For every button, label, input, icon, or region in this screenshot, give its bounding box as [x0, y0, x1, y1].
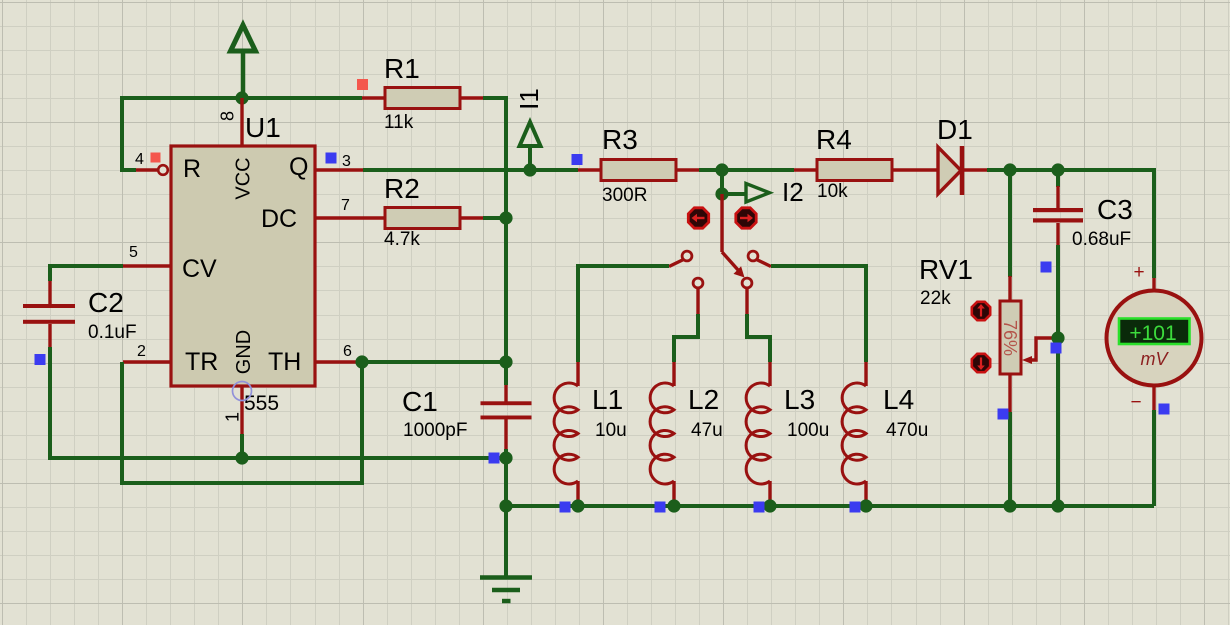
- power symbol VCC arrow: [231, 25, 256, 98]
- marker blue square pin3: [326, 153, 337, 164]
- inductor L1: [554, 362, 578, 500]
- label 555: [244, 392, 279, 415]
- inductor L4: [842, 362, 866, 500]
- current probe I2: [722, 184, 770, 203]
- inductor L3: [746, 362, 770, 500]
- wire TR to TH loop: [122, 362, 362, 483]
- svg-text:0.68uF: 0.68uF: [1072, 229, 1131, 250]
- svg-text:RV1: RV1: [919, 254, 973, 285]
- svg-text:R3: R3: [602, 124, 638, 155]
- marker blue square C2: [35, 354, 46, 365]
- label voltmeter unit mV: [1141, 349, 1170, 369]
- svg-text:+: +: [1133, 262, 1144, 283]
- svg-text:GND: GND: [233, 330, 255, 374]
- marker blue square wiper: [1051, 343, 1062, 354]
- svg-text:VCC: VCC: [233, 157, 255, 199]
- label R1: [384, 53, 420, 84]
- label R2 value 4.7k: [384, 229, 420, 250]
- label C1: [402, 386, 438, 417]
- wire C2 bottom to ground line: [50, 347, 506, 458]
- label L1 value 10u: [595, 420, 627, 441]
- svg-text:4.7k: 4.7k: [384, 229, 420, 250]
- svg-text:L4: L4: [883, 384, 914, 415]
- label L2: [688, 384, 719, 415]
- node I1 junction: [523, 163, 536, 176]
- marker red square R1: [357, 79, 368, 90]
- svg-text:22k: 22k: [920, 288, 951, 309]
- voltmeter LCD: [1119, 319, 1190, 346]
- svg-text:L1: L1: [592, 384, 623, 415]
- current probe I1: [520, 122, 541, 170]
- pin number 4: [135, 151, 144, 168]
- switch pole and lever: [722, 194, 745, 278]
- node TH junction: [355, 355, 368, 368]
- svg-text:R4: R4: [816, 124, 852, 155]
- label C2: [88, 287, 124, 318]
- svg-text:DC: DC: [261, 205, 297, 233]
- svg-text:3: 3: [342, 153, 351, 170]
- label L4 value 470u: [886, 420, 928, 441]
- switch contact 3: [742, 278, 752, 314]
- pin name R: [183, 155, 201, 183]
- wire bottom rail: [506, 504, 1154, 508]
- switch contact 4: [748, 251, 771, 266]
- wire GND pin to ground line: [240, 434, 244, 458]
- node rail junctions: [499, 499, 1064, 512]
- svg-text:R1: R1: [384, 53, 420, 84]
- wire RV1 bottom: [1008, 412, 1012, 506]
- label L4: [883, 384, 914, 415]
- resistor R1: [362, 88, 483, 109]
- marker blue square R3 left: [572, 154, 583, 165]
- wire L4 bottom: [864, 500, 868, 506]
- wire Q output: [363, 168, 578, 172]
- svg-text:4: 4: [135, 151, 144, 168]
- node C1 ground junction: [499, 451, 512, 464]
- svg-text:I1: I1: [514, 88, 544, 110]
- RV1 wiper: [1022, 338, 1056, 364]
- svg-text:8: 8: [217, 111, 237, 121]
- pin 5 CV stub: [123, 264, 171, 267]
- wire R2 right to node: [483, 216, 506, 220]
- pin name TR: [185, 348, 218, 376]
- wire CV to C2: [50, 266, 123, 281]
- label RV1 value 22k: [920, 288, 951, 309]
- pin number 8: [217, 111, 237, 121]
- svg-text:76%: 76%: [1000, 320, 1020, 356]
- pin 2 TR stub: [123, 360, 171, 363]
- ground: [480, 506, 532, 601]
- svg-text:TH: TH: [268, 348, 301, 376]
- svg-text:D1: D1: [937, 114, 973, 145]
- marker blue square RV1 bottom: [998, 409, 1009, 420]
- pin number 6: [343, 343, 352, 360]
- node C3 top junction: [1051, 163, 1064, 176]
- node RV1 top junction: [1003, 163, 1016, 176]
- pin number 7: [341, 197, 350, 214]
- svg-text:C2: C2: [88, 287, 124, 318]
- svg-text:1000pF: 1000pF: [403, 420, 467, 441]
- svg-text:300R: 300R: [602, 185, 647, 206]
- svg-text:100u: 100u: [787, 420, 829, 441]
- svg-text:−: −: [1130, 392, 1141, 413]
- wire contact2 to L2: [674, 314, 698, 362]
- label I1: [514, 88, 544, 110]
- svg-text:5: 5: [129, 244, 138, 261]
- svg-text:11k: 11k: [384, 112, 414, 133]
- wire meter bottom to rail: [1152, 410, 1156, 506]
- svg-text:mV: mV: [1141, 349, 1170, 369]
- svg-text:0.1uF: 0.1uF: [88, 322, 137, 343]
- op-amp U1 (555 timer body): [171, 146, 315, 386]
- wire RV1 top: [1008, 170, 1012, 277]
- svg-text:Q: Q: [289, 153, 308, 181]
- label R1 value 11k: [384, 112, 414, 133]
- wire L2 bottom: [672, 500, 676, 506]
- node VCC junction: [235, 91, 248, 104]
- label R4: [816, 124, 852, 155]
- label R3 value 300R: [602, 185, 647, 206]
- svg-text:10u: 10u: [595, 420, 627, 441]
- pin name DC: [261, 205, 297, 233]
- svg-text:470u: 470u: [886, 420, 928, 441]
- label L1: [592, 384, 623, 415]
- RV1 down button: [972, 354, 990, 372]
- svg-text:C1: C1: [402, 386, 438, 417]
- switch contact 2: [693, 278, 703, 314]
- diode D1: [938, 146, 987, 195]
- potentiometer RV1: [1000, 276, 1021, 412]
- marker blue square meter: [1159, 404, 1170, 415]
- origin marker circle: [233, 382, 252, 401]
- wire contact3 to L3: [747, 314, 770, 362]
- label R2: [384, 173, 420, 204]
- resistor R4: [794, 160, 938, 181]
- svg-text:555: 555: [244, 392, 279, 415]
- voltmeter body: [1107, 291, 1202, 386]
- svg-text:CV: CV: [182, 255, 217, 283]
- pin name GND: [233, 330, 255, 374]
- capacitor C1: [481, 385, 532, 449]
- voltmeter minus terminal: [1130, 385, 1154, 413]
- node switch pole top: [715, 163, 728, 176]
- label RV1 percent: [1000, 320, 1020, 356]
- wire VCC top rail: [122, 98, 362, 170]
- svg-text:1: 1: [222, 412, 242, 422]
- pin number 5: [129, 244, 138, 261]
- RV1 up button: [972, 302, 990, 320]
- voltmeter plus terminal: [1133, 262, 1154, 291]
- label R3: [602, 124, 638, 155]
- switch actuator button left: [688, 208, 708, 228]
- svg-text:C3: C3: [1097, 194, 1133, 225]
- svg-text:10k: 10k: [817, 181, 848, 202]
- capacitor C3: [1033, 170, 1083, 506]
- inductor L2: [650, 362, 674, 500]
- wire R3 to R4: [699, 168, 794, 172]
- label C3: [1097, 194, 1133, 225]
- node I2 tap: [715, 187, 728, 200]
- svg-text:R2: R2: [384, 173, 420, 204]
- marker blue square C3: [1041, 262, 1052, 273]
- pin 3 Q stub: [315, 168, 363, 171]
- pin name CV: [182, 255, 217, 283]
- marker blue square C1 ground: [489, 453, 500, 464]
- capacitor C2: [23, 281, 75, 347]
- pin number 3: [342, 153, 351, 170]
- wire D1 cathode to meter: [987, 170, 1154, 278]
- svg-text:47u: 47u: [691, 420, 723, 441]
- pin name TH: [268, 348, 301, 376]
- label L3 value 100u: [787, 420, 829, 441]
- resistor R2: [363, 208, 483, 229]
- label D1: [937, 114, 973, 145]
- label I2: [782, 177, 804, 207]
- wire R1 output down to C1 column: [483, 98, 506, 506]
- node R2/C1 junction: [499, 211, 512, 224]
- label L2 value 47u: [691, 420, 723, 441]
- label L3: [784, 384, 815, 415]
- svg-text:7: 7: [341, 197, 350, 214]
- svg-text:6: 6: [343, 343, 352, 360]
- pin 7 DC stub: [315, 216, 363, 219]
- svg-text:L2: L2: [688, 384, 719, 415]
- svg-text:+101: +101: [1129, 322, 1176, 345]
- node TH/C1 junction: [499, 355, 512, 368]
- pin 4 R stub with bubble: [136, 165, 168, 175]
- label C3 value 0.68uF: [1072, 229, 1131, 250]
- wire down to I2 tap: [720, 170, 724, 194]
- switch actuator button right: [736, 208, 756, 228]
- svg-text:TR: TR: [185, 348, 218, 376]
- node wiper junction: [1051, 331, 1064, 344]
- switch contact 1: [669, 251, 692, 266]
- resistor R3: [578, 160, 699, 181]
- wire TH row: [363, 360, 506, 364]
- marker red square pin4: [151, 153, 161, 163]
- pin name Q: [289, 153, 308, 181]
- label C1 value 1000pF: [403, 420, 467, 441]
- svg-text:2: 2: [137, 343, 146, 360]
- pin 1 GND stub: [240, 386, 243, 434]
- wire L3 bottom: [768, 500, 772, 506]
- svg-text:U1: U1: [245, 112, 281, 143]
- label U1: [245, 112, 281, 143]
- label R4 value 10k: [817, 181, 848, 202]
- pin number 1: [222, 412, 242, 422]
- marker blue squares rail: [560, 502, 861, 513]
- wire contact4 to L4: [771, 266, 866, 362]
- pin 8 VCC stub: [240, 98, 243, 146]
- wire contact1 to L1: [578, 266, 669, 362]
- label C2 value 0.1uF: [88, 322, 137, 343]
- node GND junction: [235, 451, 248, 464]
- svg-text:L3: L3: [784, 384, 815, 415]
- pin name VCC: [233, 157, 255, 199]
- svg-text:R: R: [183, 155, 201, 183]
- wire L1 bottom: [576, 500, 580, 506]
- pin number 2: [137, 343, 146, 360]
- svg-text:I2: I2: [782, 177, 804, 207]
- label RV1: [919, 254, 973, 285]
- pin 6 TH stub: [315, 360, 363, 363]
